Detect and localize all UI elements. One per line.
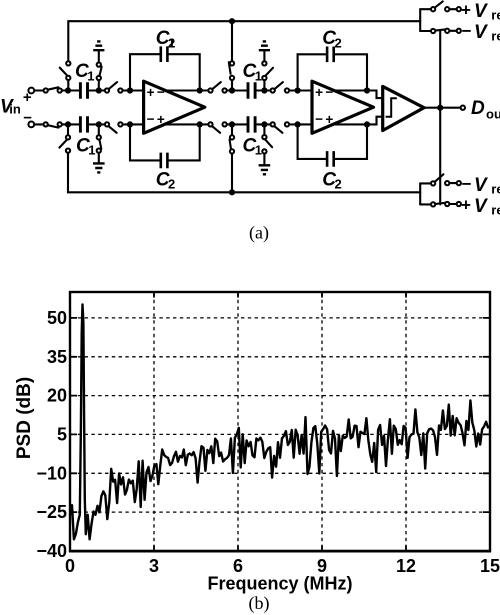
svg-text:+: + xyxy=(147,85,155,100)
svg-text:ref: ref xyxy=(491,203,500,218)
svg-text:PSD (dB): PSD (dB) xyxy=(14,377,35,459)
svg-text:−: − xyxy=(315,112,323,127)
svg-text:V: V xyxy=(474,1,488,22)
svg-text:3: 3 xyxy=(149,556,159,576)
svg-text:Frequency (MHz): Frequency (MHz) xyxy=(207,574,352,594)
svg-text:V: V xyxy=(474,22,488,43)
svg-text:−40: −40 xyxy=(36,541,67,561)
svg-text:2: 2 xyxy=(335,177,342,192)
svg-text:V: V xyxy=(474,196,488,217)
svg-text:ref: ref xyxy=(491,182,500,197)
svg-text:1: 1 xyxy=(255,68,262,83)
svg-text:out: out xyxy=(486,107,500,122)
svg-text:20: 20 xyxy=(47,386,67,406)
svg-text:ref: ref xyxy=(491,29,500,44)
svg-text:(b): (b) xyxy=(249,593,270,614)
svg-text:2: 2 xyxy=(168,177,175,192)
svg-text:0: 0 xyxy=(65,556,75,576)
svg-text:12: 12 xyxy=(396,556,416,576)
svg-text:in: in xyxy=(9,102,21,117)
svg-text:2: 2 xyxy=(335,35,342,50)
svg-text:1: 1 xyxy=(255,143,262,158)
svg-text:5: 5 xyxy=(57,425,67,445)
svg-text:+: + xyxy=(325,112,333,127)
svg-text:2: 2 xyxy=(168,35,175,50)
svg-text:D: D xyxy=(471,98,485,119)
svg-text:−: − xyxy=(23,109,32,126)
svg-text:+: + xyxy=(23,89,32,106)
svg-text:50: 50 xyxy=(47,308,67,328)
svg-text:−: − xyxy=(462,175,472,194)
svg-text:−: − xyxy=(462,22,472,41)
svg-text:+: + xyxy=(315,85,323,100)
svg-text:−: − xyxy=(147,112,155,127)
svg-text:−25: −25 xyxy=(36,502,67,522)
svg-text:−: − xyxy=(157,84,165,99)
svg-text:V: V xyxy=(474,175,488,196)
svg-text:ref: ref xyxy=(491,8,500,23)
svg-text:1: 1 xyxy=(88,143,95,158)
svg-text:35: 35 xyxy=(47,347,67,367)
svg-text:+: + xyxy=(157,112,165,127)
svg-text:(a): (a) xyxy=(249,223,269,244)
svg-text:15: 15 xyxy=(480,556,500,576)
svg-text:−10: −10 xyxy=(36,463,67,483)
svg-text:1: 1 xyxy=(87,68,94,83)
svg-text:−: − xyxy=(325,84,333,99)
svg-text:+: + xyxy=(461,196,471,215)
svg-text:+: + xyxy=(461,1,471,20)
